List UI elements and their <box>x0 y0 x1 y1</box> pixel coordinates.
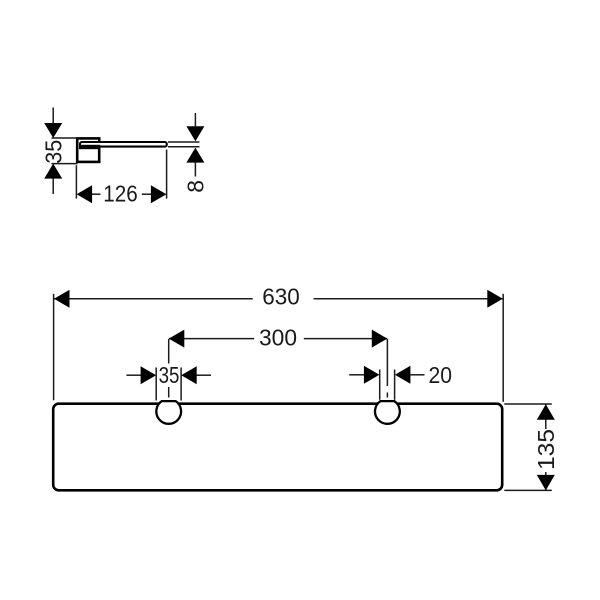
dimension 630 (overall width) <box>54 294 504 402</box>
svg-text:8: 8 <box>183 180 209 193</box>
dimension 8 (side, plate thickness) <box>168 113 200 177</box>
svg-text:20: 20 <box>429 362 453 388</box>
dimension 126 (side, horizontal bottom) <box>76 150 166 199</box>
svg-text:126: 126 <box>103 180 138 206</box>
svg-text:300: 300 <box>259 325 297 351</box>
wall bracket (side view) <box>77 138 99 162</box>
shelf outline (front view) <box>53 404 502 491</box>
dimension 20 (slot width) <box>349 370 424 400</box>
svg-text:35: 35 <box>159 362 180 388</box>
svg-text:135: 135 <box>533 429 559 470</box>
centerline right hole <box>386 339 388 398</box>
dimension 300 (hole spacing) <box>169 338 387 340</box>
svg-text:630: 630 <box>262 283 300 309</box>
dimension 135 (shelf depth, right) <box>504 404 552 490</box>
dimension 35 (hole diameter) <box>126 368 211 401</box>
left mounting hole notch <box>156 401 181 424</box>
svg-text:35: 35 <box>40 140 66 164</box>
centerline left hole <box>168 339 170 398</box>
dimension 35 (side, vertical left) <box>52 108 79 195</box>
shelf plate (side profile) <box>79 142 167 149</box>
right mounting hole notch <box>375 401 400 424</box>
